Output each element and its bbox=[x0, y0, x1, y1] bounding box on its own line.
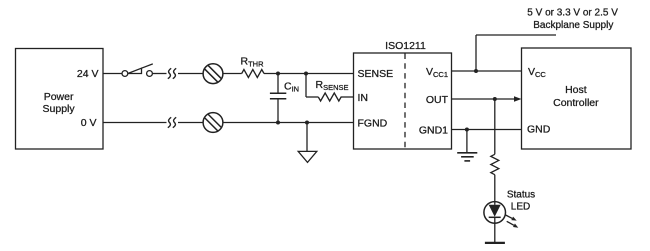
svg-text:Controller: Controller bbox=[553, 97, 599, 109]
IC ISO1211 U1 bbox=[354, 53, 452, 149]
node at CIN top bbox=[276, 72, 280, 76]
0 V label bbox=[81, 117, 97, 129]
wire switch to break bbox=[152, 73, 166, 75]
pin VCC1 bbox=[426, 66, 448, 79]
Status LED label bbox=[507, 189, 535, 212]
OUT arrowhead bbox=[514, 96, 522, 102]
field terminal (24V) bbox=[203, 64, 223, 84]
svg-text:IN: IN bbox=[358, 92, 369, 104]
wire IN branch vertical bbox=[305, 74, 307, 98]
node VCC1 supply tap bbox=[474, 69, 478, 73]
24 V label bbox=[77, 68, 99, 80]
switch S1 bbox=[122, 64, 153, 77]
wire RTHR to SENSE pin bbox=[264, 73, 354, 75]
pin GND1 bbox=[419, 124, 448, 136]
LED D1 bbox=[484, 202, 506, 224]
wire GND1 to host GND bbox=[452, 129, 522, 131]
resistor RTHR bbox=[242, 70, 264, 78]
isolation barrier dashed line bbox=[404, 54, 406, 150]
svg-text:5 V or 3.3 V or 2.5 V: 5 V or 3.3 V or 2.5 V bbox=[527, 8, 618, 19]
wire terminal to RTHR bbox=[223, 73, 242, 75]
RSENSE value label bbox=[316, 79, 349, 92]
wire break symbol (0V line) bbox=[168, 117, 176, 127]
host controller label bbox=[553, 84, 599, 109]
wire 0V from supply to break bbox=[103, 122, 167, 124]
node OUT LED tap bbox=[493, 97, 497, 101]
power supply box bbox=[16, 49, 104, 150]
node at IN branch bbox=[304, 72, 308, 76]
resistor R1 (LED limiter) bbox=[491, 154, 499, 174]
wire to ground bbox=[306, 123, 308, 152]
power supply label bbox=[43, 91, 76, 115]
node at ground branch bbox=[305, 121, 309, 125]
wire LED to ground bbox=[494, 223, 496, 242]
svg-text:FGND: FGND bbox=[358, 117, 388, 129]
svg-text:SENSE: SENSE bbox=[358, 68, 394, 80]
wire resistor to LED bbox=[494, 175, 496, 202]
pin IN bbox=[358, 92, 369, 104]
svg-text:Status: Status bbox=[507, 189, 535, 200]
wire RSENSE to IN pin bbox=[341, 96, 354, 98]
wire break to terminal bbox=[178, 73, 203, 75]
svg-text:RTHR: RTHR bbox=[241, 56, 265, 69]
resistor RSENSE bbox=[318, 93, 341, 101]
pin FGND bbox=[358, 117, 388, 129]
svg-text:Supply: Supply bbox=[43, 103, 76, 115]
ground (chassis triangle) bbox=[298, 151, 317, 162]
wire to earth ground bbox=[466, 130, 468, 153]
svg-text:RSENSE: RSENSE bbox=[316, 79, 349, 92]
RTHR value label bbox=[241, 56, 265, 69]
LED emission arrows bbox=[506, 215, 519, 228]
ground (LED return) bbox=[485, 242, 505, 244]
wire OUT tap down to resistor bbox=[494, 99, 496, 154]
svg-text:24 V: 24 V bbox=[77, 68, 99, 80]
wire OUT to host bbox=[452, 98, 516, 100]
wire to backplane supply bbox=[476, 35, 556, 71]
host controller box bbox=[522, 48, 632, 149]
svg-text:CIN: CIN bbox=[284, 81, 299, 94]
pin SENSE bbox=[358, 68, 394, 80]
wire terminal to FGND pin bbox=[223, 122, 354, 124]
svg-text:0 V: 0 V bbox=[81, 117, 97, 129]
wire break symbol (24V line) bbox=[168, 68, 176, 78]
wire VCC1 to host VCC bbox=[452, 70, 522, 72]
svg-text:GND1: GND1 bbox=[419, 124, 448, 136]
svg-text:OUT: OUT bbox=[426, 94, 449, 106]
field terminal (0V) bbox=[203, 113, 223, 133]
pin GND host bbox=[527, 123, 551, 135]
pin OUT bbox=[426, 94, 449, 106]
pin VCC host bbox=[528, 66, 546, 79]
svg-text:LED: LED bbox=[511, 201, 530, 212]
earth ground bbox=[457, 153, 477, 161]
svg-text:Backplane Supply: Backplane Supply bbox=[533, 20, 613, 31]
capacitor CIN bbox=[270, 74, 286, 123]
wire break to terminal (0V) bbox=[178, 122, 203, 124]
svg-text:ISO1211: ISO1211 bbox=[385, 40, 426, 52]
node GND1 earth tap bbox=[465, 128, 469, 132]
wire 24V from supply to switch bbox=[103, 73, 122, 75]
node at CIN bottom bbox=[276, 121, 280, 125]
svg-text:Power: Power bbox=[44, 91, 74, 103]
svg-text:GND: GND bbox=[527, 123, 551, 135]
svg-text:Host: Host bbox=[565, 84, 587, 96]
backplane supply label bbox=[527, 8, 618, 31]
ISO1211 title bbox=[385, 40, 426, 52]
CIN value label bbox=[284, 81, 299, 94]
wire IN branch to RSENSE bbox=[306, 96, 318, 98]
